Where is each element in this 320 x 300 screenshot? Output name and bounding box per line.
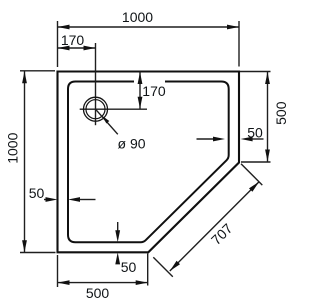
drain inner circle (86, 100, 105, 119)
extension line left-top (20, 70, 55, 72)
extension line left-bottom (20, 252, 56, 254)
gap in inner top edge near vertical 170 dim (134, 80, 165, 83)
dimension 500 right: up arrow (265, 72, 270, 84)
drain crosshair horizontal centerline (80, 108, 147, 110)
dimension 707: upper-right arrow (249, 182, 259, 192)
svg-text:50: 50 (247, 124, 263, 140)
dimension 50 bottom: down arrow at inner floor edge (115, 230, 120, 242)
dimension 50 bottom: upper tail (117, 222, 119, 231)
extension line diagonal lower (from corner of cut) (153, 257, 173, 277)
drain crosshair vertical centerline / extension for top 170 dim (95, 43, 97, 125)
dimension 1000 top: line (58, 26, 240, 28)
dimension 170 vertical: line (139, 72, 141, 109)
extension line right-top (top edge extended) (240, 71, 271, 73)
svg-text:1000: 1000 (5, 132, 21, 163)
dimension 170 top: line (58, 47, 96, 49)
dimension 50 left: arrow pointing at outer wall (46, 197, 58, 202)
dimension 500 right: line (267, 72, 269, 162)
svg-text:500: 500 (86, 285, 110, 300)
extension line bottom-left (57, 255, 59, 287)
dimension 50 right: outside tail (252, 138, 264, 140)
dimension 1000 top: left arrow (58, 25, 70, 30)
dimension 500 bottom: right arrow (136, 280, 148, 285)
svg-text:50: 50 (29, 185, 45, 201)
dimension 170 vertical: down arrow (138, 97, 143, 109)
dimension 1000 top: right arrow (227, 25, 239, 30)
dimension 50 right: arrow pointing at inner wall (213, 137, 225, 142)
dimension 1000 left: down arrow (22, 240, 27, 252)
svg-text:170: 170 (61, 32, 85, 48)
dimension 500 right: down arrow (265, 150, 270, 162)
svg-text:50: 50 (121, 259, 137, 275)
dimension 50 left: inside tail (80, 199, 96, 201)
svg-text:170: 170 (142, 83, 166, 99)
svg-text:500: 500 (273, 101, 289, 125)
dimension 50 right: arrow pointing at outer wall (241, 137, 253, 142)
dimension 707: line (170, 182, 259, 271)
dimension 170 top: left arrow (58, 46, 70, 51)
extension line diagonal upper (from corner of cut) (241, 164, 262, 185)
extension line top-left (57, 21, 59, 67)
drain leader line (96, 109, 118, 134)
dimension 707: lower-left arrow (170, 261, 180, 271)
dimension 500 bottom: left arrow (58, 280, 70, 285)
inner tray outline (68, 82, 229, 243)
outer tray outline (pentagon) (58, 72, 240, 253)
extension line top-right (238, 21, 240, 67)
dimension 50 bottom: up arrow at outer floor edge (115, 252, 120, 264)
extension line bottom-right (from diagonal corner) (147, 254, 149, 286)
drain outer circle (84, 97, 108, 121)
svg-text:ø 90: ø 90 (118, 135, 146, 151)
dimension 50 right: inside tail (197, 138, 215, 140)
extension line right-bottom (from diagonal corner) (241, 161, 271, 163)
dimension 50 left: outside tail (44, 199, 47, 201)
dimension 170 top: right arrow (84, 46, 96, 51)
drain leader arrowhead (102, 116, 109, 124)
svg-text:1000: 1000 (122, 9, 153, 25)
dimension 170 vertical: up arrow (138, 72, 143, 84)
dimension 50 left: arrow pointing at inner wall (68, 197, 80, 202)
dimension 1000 left: up arrow (22, 71, 27, 83)
dimension 500 bottom: line (58, 282, 148, 284)
dimension 1000 left: line (24, 72, 26, 253)
